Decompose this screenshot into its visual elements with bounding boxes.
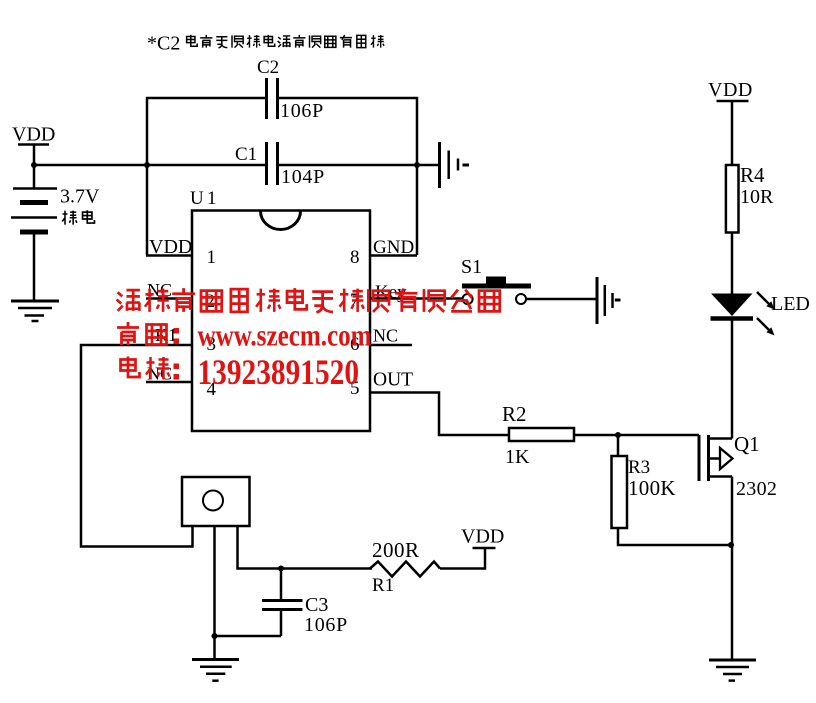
switch S1 xyxy=(461,256,531,304)
svg-text:106P: 106P xyxy=(304,614,348,636)
ground (Q1 source) xyxy=(709,660,756,681)
svg-text:106P: 106P xyxy=(280,100,324,122)
junction dot battery/rail xyxy=(31,162,37,168)
svg-text:8: 8 xyxy=(350,247,360,268)
pin 7 Key xyxy=(350,282,463,311)
svg-text:13923891520: 13923891520 xyxy=(198,352,360,392)
junction dot C2 branch left xyxy=(144,162,150,168)
svg-text:U: U xyxy=(190,188,204,209)
junction dot source xyxy=(728,542,734,548)
wire C2 right xyxy=(278,98,417,255)
wire source down to ground xyxy=(731,477,734,661)
svg-text:1: 1 xyxy=(207,247,217,268)
svg-text:1: 1 xyxy=(207,188,217,209)
ground (battery) xyxy=(11,301,59,321)
svg-text:VDD: VDD xyxy=(708,79,753,101)
pin 3 K1 xyxy=(155,325,216,355)
wire R2 to gate xyxy=(574,434,699,437)
junction dot C3 bottom xyxy=(212,633,218,639)
wire OUT to R2 xyxy=(370,393,509,436)
svg-text:10R: 10R xyxy=(740,186,774,208)
junction dot C2 branch right xyxy=(414,162,420,168)
svg-text:OUT: OUT xyxy=(373,370,413,391)
switch box K1 xyxy=(182,477,250,526)
wire R3 to source xyxy=(618,528,732,545)
resistor R1 xyxy=(370,538,440,596)
watermark line 3 电话：13923891520 xyxy=(121,352,360,392)
watermark line 1 深圳市丽晶微电子科技有限公司 xyxy=(117,288,500,312)
svg-text:100K: 100K xyxy=(628,476,676,500)
node VDD top right xyxy=(708,79,753,165)
junction dot R2/R3 xyxy=(615,432,621,438)
svg-text:C3: C3 xyxy=(305,594,328,616)
svg-text:3.7V: 3.7V xyxy=(60,186,100,208)
node VDD battery xyxy=(12,124,55,189)
capacitor C3 xyxy=(262,569,348,637)
resistor R2 xyxy=(502,402,574,468)
LED D1 xyxy=(711,292,810,336)
svg-text:NC: NC xyxy=(373,326,398,346)
ground (top right of C1) xyxy=(440,142,470,188)
svg-text:R3: R3 xyxy=(628,457,650,478)
svg-text:C2: C2 xyxy=(257,57,279,78)
svg-text:LED: LED xyxy=(771,293,810,315)
ground (box) xyxy=(192,660,239,681)
svg-text:*C2: *C2 xyxy=(147,33,180,55)
svg-text:Q1: Q1 xyxy=(734,432,760,456)
pin 6 NC xyxy=(350,326,412,356)
svg-text:VDD: VDD xyxy=(12,124,55,146)
svg-text:104P: 104P xyxy=(281,166,325,188)
svg-text:C1: C1 xyxy=(235,144,257,165)
svg-text:R4: R4 xyxy=(740,163,765,187)
wire box center pin to ground xyxy=(213,526,216,660)
pin 4 NC xyxy=(146,364,217,401)
watermark line 2 官网：www.szecm.com xyxy=(117,318,372,353)
wire drain up to LED xyxy=(731,320,734,439)
label 锂电 xyxy=(62,210,94,224)
resistor R4 xyxy=(726,163,774,233)
svg-text:2302: 2302 xyxy=(736,478,777,500)
battery BT1 3.7V xyxy=(11,186,100,233)
pin 1 VDD xyxy=(146,236,216,268)
capacitor C1 xyxy=(235,142,325,188)
junction dot C3 top xyxy=(278,566,284,572)
IC U1 xyxy=(190,188,370,431)
node VDD R1 xyxy=(461,526,504,549)
wire box right pin to R1 xyxy=(238,526,373,569)
ground (S1) xyxy=(597,277,621,324)
wire S1 to ground xyxy=(526,298,597,301)
transistor Q1 2302 xyxy=(699,432,777,500)
svg-text:VDD: VDD xyxy=(461,526,504,548)
svg-text:S1: S1 xyxy=(461,256,482,278)
svg-text:R2: R2 xyxy=(502,402,527,426)
pin 8 GND xyxy=(350,237,417,268)
svg-text:200R: 200R xyxy=(372,538,420,562)
note text "*C2 电容可根据电源实际需要调整" xyxy=(147,33,384,55)
svg-text:www.szecm.com: www.szecm.com xyxy=(198,318,372,353)
wire C3 bottom xyxy=(215,635,282,638)
wire R4 to LED xyxy=(731,233,734,296)
svg-text:1K: 1K xyxy=(505,446,530,468)
pin 2 NC xyxy=(146,280,215,312)
wire battery to ground xyxy=(33,233,36,300)
wire C1 to ground xyxy=(278,164,440,167)
wire VDD rail xyxy=(34,164,266,167)
svg-text:R1: R1 xyxy=(372,575,394,596)
wire R1 to VDD xyxy=(440,548,485,569)
pin 5 OUT xyxy=(350,370,413,400)
capacitor C2 xyxy=(257,57,324,122)
wire pin3 to switch box xyxy=(81,345,193,547)
wire C2 left xyxy=(147,98,266,255)
resistor R3 xyxy=(612,435,676,528)
